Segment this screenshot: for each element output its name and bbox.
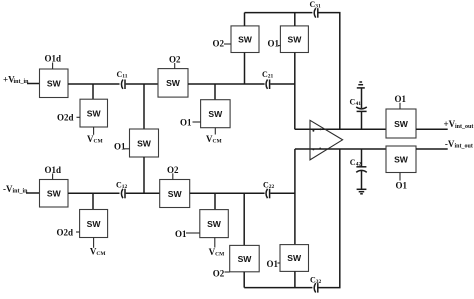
switch SW3 (O1) upper vcm branch2 [201,100,231,128]
wire SW7 top stub [294,13,296,26]
svg-text:int_out: int_out [455,124,473,130]
svg-text:-V: -V [445,139,455,149]
node VCM label lower-mid [209,247,225,257]
wire O1 stub bottom [278,262,281,264]
wire upper output line left [295,128,386,130]
wire SW3 to VCM [214,128,216,135]
switch SW13 (O1) bottom pair right [280,245,309,272]
node +Vint_out label [444,119,474,130]
svg-text:SW: SW [287,253,302,263]
wire -Vint_in to SW8 [26,192,40,194]
svg-text:SW: SW [87,219,102,229]
svg-text:O1: O1 [395,94,407,104]
wire O1 stub [399,103,401,109]
switch SW10 (O2d) lower vcm branch [80,210,108,238]
svg-text:12: 12 [122,184,128,190]
svg-text:31: 31 [315,3,321,9]
wire O1 stub [278,45,280,47]
switch SW4 (O2) upper main [158,69,188,98]
node -Vint_out label [445,139,473,150]
svg-text:CM: CM [215,251,225,257]
wire op-amp lower input vertical through lower main [294,149,296,245]
wire branch down at x=215 lower [214,193,216,209]
wire upper main line seg3 [188,83,265,85]
wire branch down at x=215 [214,84,216,100]
capacitor C11 [117,70,128,89]
wire branch down at x=144 to middle switch [143,84,145,129]
node VCM label upper-mid [206,134,222,145]
svg-text:42: 42 [356,162,362,168]
wire upper main line seg1 [68,83,120,85]
switch SW11 (O1) lower vcm branch2 [200,210,229,238]
wire SW10 to VCM [93,238,95,248]
switch SW1 (O1d) input top [40,69,69,98]
wire O1 stub lower [186,232,200,234]
capacitor C32 [310,275,322,292]
svg-text:O1: O1 [396,180,408,190]
capacitor C12 [116,180,128,198]
wire lower output line left [295,148,386,150]
svg-text:+V: +V [444,119,456,129]
wire O2 stub lower [172,173,174,179]
wire lower main line seg4 [270,192,295,194]
switch SW9 (O2) lower main [160,180,190,208]
svg-text:CM: CM [96,251,106,257]
svg-text:O1: O1 [180,118,192,128]
wire SW7 bottom through main to op-amp upper input [294,53,296,130]
svg-text:SW: SW [47,189,62,199]
wire SW11 to VCM [214,238,216,248]
wire SW2 to VCM [93,127,95,135]
svg-text:22: 22 [269,184,275,190]
node +Vint_in label [3,75,29,85]
wire lower main line seg2 [126,192,160,194]
svg-text:SW: SW [394,119,409,129]
switch SW7 (O1) top pair right [280,26,308,53]
svg-text:SW: SW [238,34,253,44]
wire branch x=244 down to bottom pair [243,193,245,245]
wire lower output to -Vint_out [416,148,448,150]
wire O2 stub [174,63,176,69]
svg-text:21: 21 [268,74,274,80]
switch SW15 (O1) output bottom [386,146,416,173]
wire top rail seg1 [245,12,313,14]
svg-text:SW: SW [207,219,222,229]
svg-text:SW: SW [87,108,102,118]
svg-text:O2d: O2d [57,227,74,237]
wire O2d stub lower [76,231,80,233]
ground lower (C42) [357,189,367,194]
capacitor C31 [310,0,322,18]
ground upper (C41) [357,82,365,108]
svg-text:O1: O1 [268,38,280,48]
wire upper output to +Vint_out [416,128,448,130]
capacitor C41 [350,98,367,130]
svg-text:CM: CM [213,138,223,144]
svg-text:O1: O1 [175,229,187,239]
svg-text:SW: SW [238,254,253,264]
capacitor C22 [263,180,275,198]
wire lower main line seg1 [68,192,120,194]
wire SW5 down to lower main line [143,157,145,194]
wire +Vint_in to SW1 [27,83,40,85]
capacitor C42 [350,149,367,189]
svg-text:SW: SW [168,189,183,199]
svg-text:int_in: int_in [14,79,30,85]
node -Vint_in label [3,184,28,194]
op-amp U1 (fully differential) [310,120,343,160]
svg-text:-V: -V [3,184,13,194]
wire O1 stub bottom [399,173,401,181]
svg-text:O2: O2 [213,39,225,49]
wire branch down at x=93 lower [92,193,94,209]
wire lower main line seg3 [190,192,265,194]
wire O1d stub bottom [52,174,54,180]
wire branch down at x=93 [92,84,94,99]
wire O2 stub [224,43,231,45]
svg-text:int_out: int_out [455,144,473,150]
wire upper main line seg4 [270,83,295,85]
wire bottom rail seg1 [244,287,312,289]
svg-text:int_in: int_in [13,188,29,194]
svg-text:SW: SW [47,79,62,89]
capacitor C21 [262,70,274,89]
switch SW8 (O1d) input bottom [40,180,69,208]
svg-text:CM: CM [94,138,104,144]
svg-text:SW: SW [394,155,409,165]
wire O1 stub middle [124,148,130,150]
svg-text:SW: SW [287,34,302,44]
svg-text:O2: O2 [213,268,225,278]
svg-text:O1d: O1d [45,54,62,64]
wire bottom rail seg2 + feedback vertical to lower output [319,149,340,288]
wire top rail seg2 + feedback vertical to upper output [319,13,340,130]
svg-text:SW: SW [208,109,223,119]
wire upper main line seg2 [126,83,158,85]
switch SW5 (O1) middle common [130,129,159,157]
node VCM label lower-left [90,247,106,258]
switch SW2 (O2d) upper vcm branch [80,99,108,127]
wire O2 stub bottom [225,271,230,273]
switch SW6 (O2) top pair left [231,26,259,53]
svg-text:32: 32 [316,279,322,285]
wire O1 stub [193,121,201,123]
wire O1d stub [52,63,54,70]
wire SW12 bottom stub to rail [243,272,245,288]
svg-text:41: 41 [356,101,362,107]
switch SW12 (O2) bottom pair left [230,245,260,271]
svg-text:11: 11 [122,74,127,80]
svg-text:O2d: O2d [57,113,74,123]
wire O2d stub [77,116,81,118]
svg-text:O1d: O1d [45,165,62,175]
switch SW14 (O1) output top [386,109,416,138]
wire SW13 bottom stub to rail [294,271,296,287]
svg-text:O1: O1 [267,259,279,269]
svg-text:O1: O1 [114,142,126,152]
wire SW6 top stub [244,13,246,26]
wire SW6 bottom stub to main [244,53,246,85]
node VCM label upper-left [87,134,103,145]
svg-text:SW: SW [166,78,181,88]
svg-text:SW: SW [137,138,152,148]
